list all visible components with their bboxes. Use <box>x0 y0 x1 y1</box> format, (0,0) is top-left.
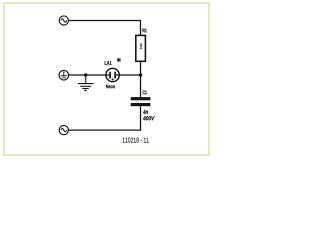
label R1 <box>143 29 147 33</box>
value 4n <box>143 110 148 114</box>
label LA1 <box>105 61 112 65</box>
resistor R1 <box>136 35 146 61</box>
AC source (top) <box>59 16 68 25</box>
value 400V <box>143 116 155 120</box>
label C1 <box>143 90 147 94</box>
value label 10M (inside R1) <box>140 44 142 50</box>
node A (ground junction) <box>84 73 87 76</box>
AC source (bottom) <box>59 126 68 135</box>
wire: R1 bottom to node B <box>140 61 142 75</box>
caption 110218 - 11 <box>123 138 149 143</box>
wire: top source to R1 <box>68 21 140 36</box>
capacitor C1 <box>131 97 151 106</box>
wire: node B to C1 <box>140 75 142 97</box>
label Neon <box>106 85 115 89</box>
asterisk marker (see text) <box>117 58 121 63</box>
protective earth terminal <box>59 70 69 80</box>
ground <box>78 75 94 90</box>
node B (R1/C1 junction) <box>139 73 143 77</box>
wire: middle rail (earth to lamp to node B) <box>69 74 141 76</box>
wire: C1 to bottom source <box>69 106 141 130</box>
neon lamp LA1 <box>106 68 119 81</box>
